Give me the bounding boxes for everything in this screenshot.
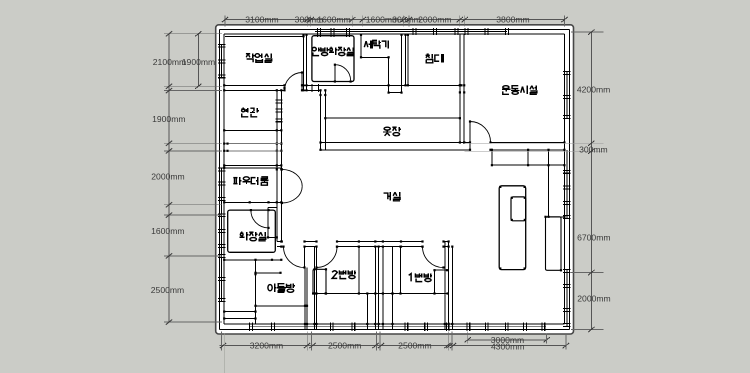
wall: 거실 side line (x=452.3)	[451, 247, 453, 330]
svg-text:2500mm: 2500mm	[398, 340, 431, 350]
wall: 침대 left (x=407.9)	[407, 34, 409, 85]
wall: corridor vertical pair (x=276.8/281.3)	[276, 90, 278, 241]
cabinet right wall (box)	[546, 217, 562, 270]
wall: exterior bottom (double line)	[219, 329, 569, 331]
room label 안방화장실	[312, 47, 316, 50]
wall: pantry divider (x=548.5, y165..217)	[548, 165, 550, 217]
wall: lower zone divider (x=367.3)	[366, 294, 368, 330]
svg-text:3800mm: 3800mm	[496, 14, 529, 24]
dimension chain: top line	[225, 19, 565, 21]
svg-text:1600mm: 1600mm	[151, 226, 184, 236]
room label 침대	[427, 53, 429, 55]
wall: 아들방/2번방 partition (x=305/307)	[304, 268, 306, 330]
junction ticks at wall corner (x=312/318.5)	[311, 84, 313, 92]
door 2번방 (leaf + swing arc)	[316, 247, 318, 268]
wall: 2번방 right upper (x=358.9)	[358, 247, 360, 294]
dimension chain: bottom main line	[220, 345, 456, 347]
svg-text:6700mm: 6700mm	[577, 232, 610, 242]
wall: 2번방 left pair (x=314.5/316.5)	[314, 247, 316, 330]
fixture in 화장실 (thin box)	[267, 208, 269, 238]
svg-text:2500mm: 2500mm	[328, 340, 361, 350]
wall: under 화장실 (y=259.8)	[224, 259, 281, 261]
room label 아들방	[268, 285, 272, 291]
wall: 1번방 left (x=392.5 full + x=400.5 upper)	[392, 247, 394, 330]
door 운동시설 (leaf + swing arc)	[469, 122, 471, 150]
window ticks: top wall	[317, 28, 319, 35]
wall: 세탁기 alcove left (x=361)	[360, 34, 362, 57]
svg-text:300mm: 300mm	[392, 14, 421, 24]
wall: duct column right pair (x=401.5/405.5)	[401, 34, 403, 93]
window glass line: top wall	[315, 31, 507, 33]
double door 파우더룸-거실 (two swing arcs)	[282, 169, 302, 186]
room label 거실	[384, 193, 388, 199]
svg-text:3100mm: 3100mm	[245, 14, 278, 24]
drawing sheet (white plan area)	[216, 25, 574, 334]
room label 화장실	[241, 231, 242, 233]
window ticks: right wall	[563, 71, 570, 73]
door 작업실 (leaf + swing arc)	[301, 73, 303, 91]
window ticks: 안방화장실 top	[317, 35, 319, 37]
window ticks: corridor wall (현관 right)	[275, 99, 282, 101]
dimension chain: left outer line	[168, 34, 170, 322]
svg-text:2000mm: 2000mm	[577, 294, 610, 304]
door 화장실 (leaf + swing arc)	[251, 210, 269, 228]
door 안방화장실 (arc in bottom edge)	[335, 65, 351, 81]
dimension chain: bottom 4300mm segment	[455, 345, 566, 347]
closet 1번방 (L partition)	[434, 270, 436, 293]
wall: 현관/옷장 vertical pair (x=320.5/325.3)	[320, 90, 322, 150]
wall: horizontal under 작업실 (y=85.3/90.3)	[224, 84, 284, 86]
inner ceiling line 작업실 (y=36.3)	[225, 35, 304, 37]
furniture: tall unit in 거실 (rounded)	[499, 186, 526, 270]
svg-text:300mm: 300mm	[579, 145, 608, 155]
room label 파우더룸	[233, 177, 237, 179]
svg-text:1900mm: 1900mm	[152, 114, 185, 124]
wall: exterior top (double line)	[219, 28, 569, 30]
svg-text:1900mm: 1900mm	[182, 57, 215, 67]
wall: 화장실 top (y=202.3)	[224, 201, 281, 203]
wall: duct column left (x=388.6)	[388, 57, 390, 92]
closet 2번방 (box)	[313, 269, 326, 293]
wall: 현관 bottom shelf line (y=130.3)	[224, 129, 281, 131]
wall: 작업실 right (x=303.5/306.5)	[303, 34, 305, 90]
svg-text:1600mm: 1600mm	[317, 14, 350, 24]
dimension extension lines: top	[224, 16, 226, 27]
room 안방화장실 enclosure (rounded)	[312, 36, 354, 82]
wall: 아들방 bottom (y=305.8)	[256, 305, 307, 307]
room label 작업실	[246, 53, 250, 55]
room 화장실 enclosure (rounded)	[228, 210, 276, 252]
svg-text:4200mm: 4200mm	[577, 85, 610, 95]
dimension extension lines: bottom	[221, 332, 223, 351]
wall: 옷장/거실 horizontal pair (y=142.5/149.8)	[321, 142, 471, 144]
svg-text:3200mm: 3200mm	[250, 340, 283, 350]
dimension chain: left inner line (1900)	[197, 34, 199, 87]
wall: exterior left (double line)	[218, 29, 220, 329]
closet 아들방 left (box)	[255, 260, 257, 324]
furniture: attached small unit	[511, 197, 526, 221]
wall: 세탁기 alcove bottom (y=57.3)	[361, 56, 389, 58]
svg-text:2000mm: 2000mm	[151, 172, 184, 182]
room label 옷장	[384, 127, 390, 130]
svg-text:2000mm: 2000mm	[418, 14, 451, 24]
wall: center shaft (x=375.3/378.6/382.9)	[374, 247, 376, 330]
door 아들방 (leaf + swing arc)	[304, 247, 306, 268]
room label 세탁기	[364, 41, 366, 47]
closet row 운동시설 (y=149.8..165.2)	[491, 150, 493, 165]
duct column bottom (y=92.6)	[389, 92, 402, 94]
wall: 거실 bottom pair (y=241.5/246.6)	[277, 241, 282, 243]
room label 현관	[242, 107, 244, 109]
shelf lines 현관 (y=143.6/150.8, light)	[224, 143, 281, 145]
wall: 파우더룸 top pair (y=165.4/167.8)	[224, 164, 281, 166]
wall: 1번방 right pair (x=444.8/448.6)	[444, 242, 446, 330]
dimension chain: right line	[590, 32, 592, 329]
room label 운동시설	[503, 86, 509, 89]
room label 1번방	[409, 274, 411, 282]
dimension chain: bottom 3000mm line	[468, 339, 547, 341]
window ticks: left wall	[218, 43, 225, 45]
room label 2번방	[332, 271, 337, 279]
window ticks: bottom wall	[249, 323, 251, 331]
svg-text:2500mm: 2500mm	[151, 285, 184, 295]
window glass line: right wall	[566, 72, 568, 118]
window glass line: bottom wall	[250, 326, 546, 328]
dimension extension lines: right	[571, 31, 603, 33]
svg-text:4300mm: 4300mm	[491, 342, 524, 352]
wall: exterior right (double line)	[563, 34, 565, 324]
wall: 침대 right pair (x=459.9/464.2)	[459, 34, 461, 143]
window glass line: left wall	[221, 45, 223, 78]
wall: 옷장 top (y=118.2)	[325, 117, 460, 119]
dimension extension lines: left	[164, 33, 222, 35]
closet return line (y=272.8)	[256, 272, 281, 274]
wall: lower zone line (y=293.5 across 2번방/1번방)	[313, 293, 449, 295]
door 1번방 (swing arc)	[423, 247, 444, 268]
drawing axis line (vertical, below sheet)	[224, 334, 226, 373]
